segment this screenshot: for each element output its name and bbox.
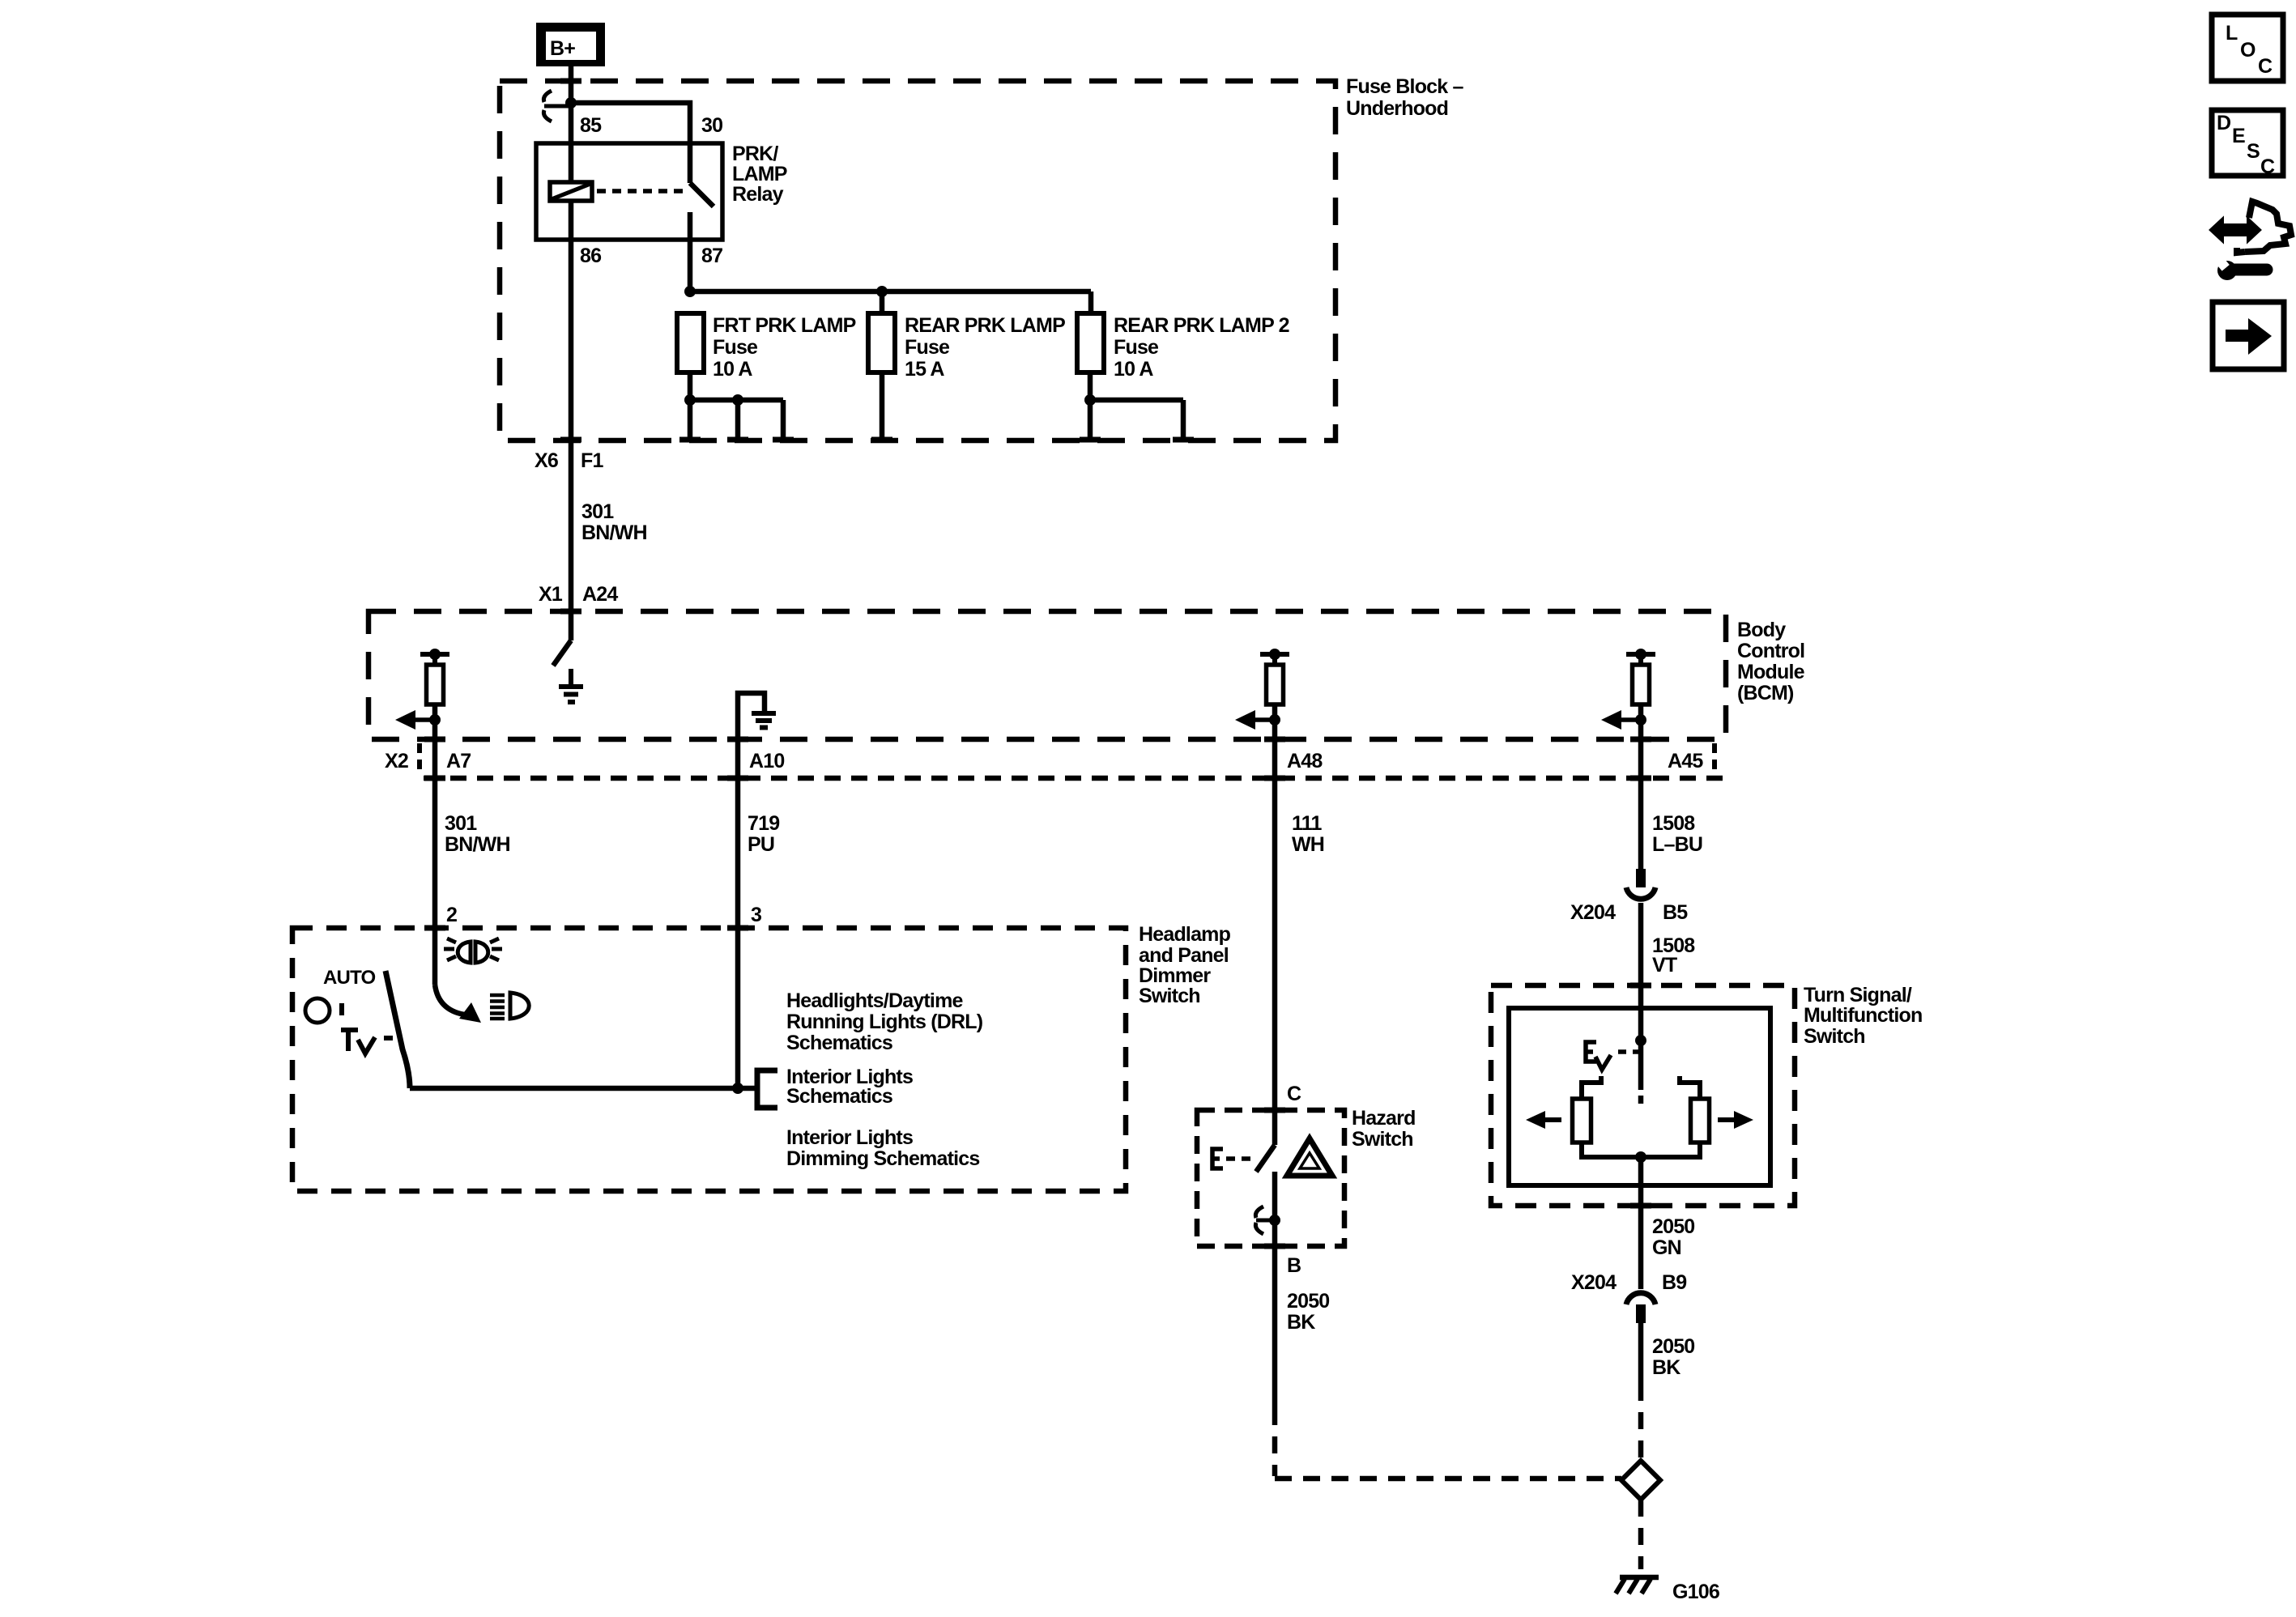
svg-text:VT: VT	[1652, 954, 1677, 977]
svg-text:B5: B5	[1663, 901, 1688, 924]
svg-text:X2: X2	[385, 750, 408, 772]
connector X1 A24 labels	[539, 583, 618, 606]
turn signal Ev symbol	[1586, 1042, 1611, 1070]
turn signal switch label	[1804, 984, 1923, 1048]
svg-text:B+: B+	[550, 37, 575, 60]
svg-text:D: D	[2217, 112, 2230, 134]
relay coil	[550, 182, 592, 201]
svg-text:85: 85	[580, 114, 602, 137]
svg-text:10 A: 10 A	[1114, 358, 1153, 381]
hazard E dashes	[1226, 1156, 1257, 1161]
headlamp switch output wire	[410, 1086, 738, 1091]
Ev dashes	[1618, 1049, 1638, 1054]
dashed splice wire from hazard B	[1275, 1408, 1621, 1479]
svg-text:C: C	[1287, 1083, 1301, 1105]
connector X204 B9 male pin	[1636, 1304, 1646, 1323]
A10 internal wire to ground	[738, 693, 765, 1088]
svg-text:Multifunction: Multifunction	[1804, 1004, 1923, 1027]
B+ power symbol	[536, 23, 605, 66]
connector X204 B9 labels	[1571, 1271, 1686, 1294]
svg-text:111: 111	[1292, 812, 1322, 835]
svg-text:1508: 1508	[1652, 812, 1695, 835]
svg-text:BK: BK	[1652, 1356, 1680, 1379]
svg-text:Interior Lights: Interior Lights	[786, 1126, 913, 1149]
fuse REAR PRK LAMP label	[905, 314, 1065, 381]
wire 719 PU label	[748, 812, 779, 856]
connector X204 B5 female terminal	[1626, 887, 1655, 899]
svg-text:REAR PRK LAMP 2: REAR PRK LAMP 2	[1114, 314, 1289, 337]
fuse bus junction 1	[684, 286, 696, 297]
hazard switch blade	[1256, 1145, 1275, 1172]
svg-text:O: O	[2240, 39, 2256, 62]
fuse 3 output wire	[1088, 372, 1093, 400]
wire X204 B5 to turn signal switch	[1638, 903, 1644, 1040]
svg-text:X204: X204	[1570, 901, 1616, 924]
wire relay 86 down through fuse block	[569, 201, 574, 640]
svg-text:FRT PRK LAMP: FRT PRK LAMP	[713, 314, 856, 337]
svg-text:301: 301	[445, 812, 477, 835]
svg-text:2: 2	[446, 904, 457, 926]
dashed splice wire from X204 B9	[1638, 1384, 1644, 1457]
svg-text:2050: 2050	[1652, 1335, 1694, 1358]
drop to fuse 3	[1088, 291, 1094, 313]
fuse 1 output junction b	[732, 394, 743, 406]
turn signal wiper wire	[1638, 1040, 1644, 1090]
hazard clip symbol	[1255, 1206, 1272, 1234]
relay switch blade	[690, 183, 714, 206]
svg-text:A24: A24	[582, 583, 618, 606]
hazard junction dot	[1269, 1215, 1280, 1226]
svg-text:Dimmer: Dimmer	[1139, 964, 1211, 987]
wire 1508 VT label	[1652, 934, 1695, 977]
right turn resistor	[1691, 1099, 1710, 1143]
svg-text:10 A: 10 A	[713, 358, 752, 381]
rotary off position circle	[305, 998, 330, 1023]
splice diamond	[1621, 1461, 1660, 1500]
fuse REAR PRK LAMP 2 10A	[1077, 313, 1104, 372]
hand with double arrow and wrench icon	[2211, 202, 2291, 280]
svg-text:3: 3	[751, 904, 761, 926]
turn signal feed junction	[1635, 1035, 1646, 1046]
svg-text:Switch: Switch	[1352, 1128, 1413, 1151]
svg-text:B: B	[1287, 1254, 1301, 1277]
relay label	[732, 143, 787, 206]
fuse 1 output stubs	[690, 400, 783, 440]
ground G106 symbol	[1616, 1577, 1659, 1594]
svg-text:E: E	[2232, 125, 2245, 147]
svg-text:PU: PU	[748, 833, 774, 856]
LOC reference box	[2212, 15, 2283, 81]
svg-text:B9: B9	[1662, 1271, 1686, 1294]
bottom junction dot	[1635, 1151, 1646, 1163]
svg-text:GN: GN	[1652, 1236, 1681, 1259]
svg-text:Fuse Block –: Fuse Block –	[1346, 75, 1464, 98]
svg-text:15 A: 15 A	[905, 358, 944, 381]
drop to fuse 2	[880, 291, 885, 313]
svg-text:Fuse: Fuse	[905, 336, 950, 359]
svg-text:F1: F1	[581, 449, 603, 472]
A45 internal resistor group	[1601, 649, 1655, 739]
svg-text:BN/WH: BN/WH	[445, 833, 510, 856]
svg-text:X1: X1	[539, 583, 563, 606]
hazard lower wire	[1272, 1172, 1278, 1246]
headlights DRL schematics note	[786, 989, 983, 1054]
A48 internal resistor group	[1235, 649, 1289, 739]
wire below X204 B9	[1638, 1323, 1644, 1384]
svg-text:87: 87	[701, 245, 722, 267]
svg-text:AUTO: AUTO	[323, 967, 375, 989]
svg-text:A10: A10	[749, 750, 784, 772]
svg-text:X204: X204	[1571, 1271, 1617, 1294]
relay pin 87 stub	[688, 212, 693, 240]
svg-text:Fuse: Fuse	[1114, 336, 1159, 359]
wire 1508 L-BU label	[1652, 812, 1702, 856]
svg-text:30: 30	[701, 114, 722, 137]
svg-text:Headlights/Daytime: Headlights/Daytime	[786, 989, 964, 1012]
svg-text:REAR PRK LAMP: REAR PRK LAMP	[905, 314, 1065, 337]
svg-text:Relay: Relay	[732, 183, 784, 206]
dashed wire to ground	[1638, 1500, 1644, 1569]
svg-text:Turn Signal/: Turn Signal/	[1804, 984, 1912, 1006]
wire A7 down to headlamp switch	[432, 739, 438, 985]
svg-text:BN/WH: BN/WH	[581, 521, 647, 544]
svg-text:L: L	[2226, 22, 2238, 45]
turn signal inner box	[1509, 1008, 1770, 1185]
svg-text:X6: X6	[535, 449, 558, 472]
svg-text:Dimming Schematics: Dimming Schematics	[786, 1147, 979, 1170]
fuse block label	[1346, 75, 1464, 120]
A24 internal switch blade	[553, 640, 571, 666]
wire 111 WH label	[1292, 812, 1324, 856]
clip symbol on B+ feed	[543, 91, 569, 121]
fuse 1 output wire	[688, 372, 693, 400]
wire 301 BN/WH label (upper)	[581, 500, 647, 544]
wire A48 down to hazard switch	[1272, 739, 1278, 1145]
svg-text:Running Lights (DRL): Running Lights (DRL)	[786, 1011, 983, 1033]
X2 separator dashes	[417, 743, 422, 776]
svg-text:L–BU: L–BU	[1652, 833, 1702, 856]
svg-text:Module: Module	[1737, 661, 1805, 683]
svg-text:Schematics: Schematics	[786, 1085, 892, 1108]
svg-text:and Panel: and Panel	[1139, 944, 1229, 967]
A45 separator dashes	[1712, 743, 1717, 776]
svg-text:Headlamp: Headlamp	[1139, 923, 1231, 946]
svg-text:Hazard: Hazard	[1352, 1107, 1416, 1130]
svg-text:A45: A45	[1668, 750, 1703, 772]
headlamp and panel dimmer switch dashed box	[292, 928, 1126, 1191]
svg-text:A7: A7	[446, 750, 471, 772]
fuse REAR PRK LAMP 2 label	[1114, 314, 1289, 381]
svg-text:Body: Body	[1737, 619, 1786, 641]
svg-text:(BCM): (BCM)	[1737, 682, 1794, 704]
svg-text:Switch: Switch	[1804, 1025, 1865, 1048]
svg-text:Underhood: Underhood	[1346, 97, 1448, 120]
svg-text:86: 86	[580, 245, 601, 267]
hazard switch dashed box	[1197, 1110, 1344, 1246]
hazard switch label	[1352, 1107, 1416, 1151]
fuse bus	[690, 289, 1091, 295]
A24 internal ground	[559, 669, 583, 702]
headlamp switch blade	[386, 971, 410, 1088]
connector X6 F1 labels	[535, 449, 603, 472]
svg-text:2050: 2050	[1652, 1215, 1694, 1238]
relay actuation dashed link	[597, 189, 684, 194]
headlamp icon	[490, 993, 529, 1019]
output junction dot	[732, 1083, 743, 1094]
BCM label	[1737, 619, 1805, 704]
BCM connector band dotted line	[424, 776, 1726, 781]
DESC reference box	[2212, 110, 2283, 178]
fuse 1 output junction a	[684, 394, 696, 406]
left turn arrow	[1526, 1111, 1561, 1129]
svg-text:S: S	[2247, 140, 2260, 163]
interior lights schematics note	[786, 1066, 913, 1108]
svg-text:G106: G106	[1672, 1581, 1719, 1603]
interior lights bracket	[757, 1070, 777, 1108]
svg-text:Schematics: Schematics	[786, 1032, 892, 1054]
connector X204 B9 female terminal	[1626, 1293, 1655, 1304]
wire B+ to relay coil	[569, 66, 574, 182]
svg-text:2050: 2050	[1287, 1290, 1329, 1313]
right branch wire	[1680, 1076, 1700, 1099]
interior lights dimming note	[786, 1126, 979, 1170]
fuse 1 output branch line	[690, 398, 783, 403]
fuse 2 output wire	[880, 372, 885, 440]
wire pin 87 to fuse bus	[688, 240, 693, 291]
link to bracket	[738, 1086, 757, 1091]
wire 301 BN/WH label (lower)	[445, 812, 510, 856]
right branch lower wire	[1641, 1143, 1700, 1157]
fuse bus junction 2	[876, 286, 888, 297]
hazard warning triangle	[1287, 1138, 1332, 1176]
svg-text:301: 301	[581, 500, 614, 523]
headlamp switch label	[1139, 923, 1231, 1007]
hazard switch E symbol	[1212, 1149, 1223, 1168]
forward arrow reference box	[2213, 302, 2284, 369]
A10 internal ground	[752, 713, 776, 728]
fuse FRT PRK LAMP label	[713, 314, 856, 381]
connector X204 B5 labels	[1570, 901, 1688, 924]
svg-text:Control: Control	[1737, 640, 1804, 662]
fuse FRT PRK LAMP 10A	[677, 313, 704, 372]
curved selector arrow	[435, 985, 481, 1023]
wire 2050 GN label	[1652, 1215, 1694, 1259]
svg-text:LAMP: LAMP	[732, 163, 787, 185]
A7 internal resistor group	[395, 649, 449, 739]
left branch lower wire	[1582, 1143, 1641, 1157]
border crossing tick marks	[424, 81, 1651, 1246]
svg-text:A48: A48	[1287, 750, 1323, 772]
wire branch to pin 30	[571, 103, 690, 183]
svg-text:C: C	[2258, 55, 2273, 78]
momentary position symbol	[341, 1030, 393, 1053]
fuse REAR PRK LAMP 15A	[868, 313, 895, 372]
hazard B wire down	[1272, 1246, 1278, 1408]
svg-text:WH: WH	[1292, 833, 1324, 856]
wire 2050 BK label (right)	[1652, 1335, 1694, 1379]
fuse 3 output branch	[1090, 400, 1183, 440]
node junction at pin 85 branch	[565, 97, 577, 109]
right turn arrow	[1718, 1111, 1753, 1129]
wire 2050 BK label (left)	[1287, 1290, 1329, 1334]
svg-text:Fuse: Fuse	[713, 336, 758, 359]
svg-text:C: C	[2260, 155, 2275, 178]
svg-text:PRK/: PRK/	[732, 143, 778, 165]
wire A45 down to connector X204 B5	[1638, 739, 1644, 869]
wire down from turn signal switch	[1638, 1157, 1644, 1289]
wiper contact tick	[1638, 1096, 1644, 1104]
svg-text:719: 719	[748, 812, 779, 835]
connector X204 B5 male pin	[1636, 869, 1646, 887]
turn signal multifunction switch dashed box	[1491, 985, 1795, 1206]
dash right of circle	[339, 1003, 344, 1015]
relay PRK/LAMP box	[536, 143, 722, 240]
left branch wire	[1582, 1076, 1601, 1099]
svg-text:BK: BK	[1287, 1311, 1315, 1334]
fuse 3 output junction	[1084, 394, 1096, 406]
fuse block underhood dashed box	[500, 81, 1335, 440]
parking lamps icon	[444, 938, 502, 963]
BCM dashed box	[368, 611, 1726, 739]
left turn resistor	[1573, 1099, 1591, 1143]
svg-text:Switch: Switch	[1139, 985, 1200, 1007]
